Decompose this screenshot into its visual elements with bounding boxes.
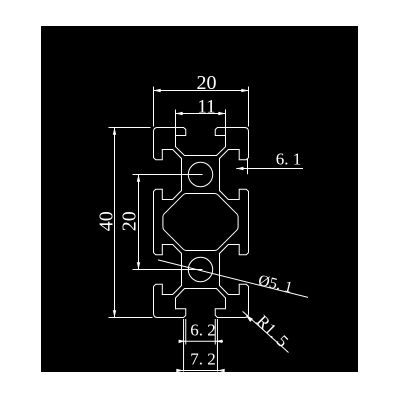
- dimension 40 (left height): [109, 128, 153, 318]
- dimension 6.2 (bottom slot opening): [179, 319, 223, 345]
- leader 6.1 (side slot opening): [236, 159, 303, 175]
- svg-text:40: 40: [95, 211, 117, 231]
- svg-text:6. 1: 6. 1: [276, 150, 302, 169]
- leader R1.5 (corner radius): [243, 311, 289, 352]
- profile outer outline with six T-slots: [154, 128, 249, 318]
- svg-text:6. 2: 6. 2: [190, 321, 216, 340]
- dimension texts: [95, 72, 301, 369]
- centerline bottom circle: [133, 269, 203, 271]
- dimension 20 (top width): [154, 87, 249, 127]
- dimension 11 (slot cavity width): [176, 110, 226, 136]
- leader Φ5.1 (hole diameter): [158, 260, 308, 298]
- svg-text:20: 20: [197, 72, 217, 94]
- centerline top circle: [133, 174, 203, 176]
- central octagonal cavity: [163, 194, 238, 251]
- svg-text:20: 20: [119, 211, 141, 231]
- svg-text:7. 2: 7. 2: [190, 350, 216, 369]
- dimension 7.2 (bottom slot mouth): [176, 319, 224, 372]
- svg-text:11: 11: [197, 97, 215, 118]
- hole circle bottom (Φ5.1): [188, 257, 212, 281]
- hole circle top (Φ5.1): [188, 162, 212, 186]
- dimension 20 (hole spacing left): [137, 175, 140, 270]
